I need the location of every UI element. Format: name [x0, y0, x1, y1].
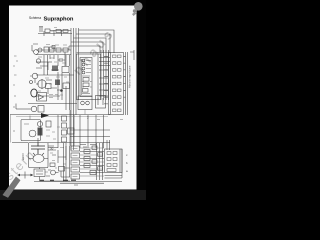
plug arrow left — [18, 172, 34, 179]
motor M — [29, 153, 48, 163]
wire long horizontal B — [10, 114, 110, 116]
watermark diagonal upper — [70, 25, 118, 78]
wire vertical bus center — [71, 28, 79, 150]
svg-text:Schéma: Schéma — [29, 16, 41, 20]
motor box — [29, 143, 49, 168]
wire long horizontal B2 — [16, 115, 108, 117]
wire top bus — [38, 31, 72, 34]
wire box top link — [77, 51, 109, 53]
wire left margin drop — [10, 115, 12, 143]
schematic page — [9, 6, 137, 190]
tube V3 — [38, 79, 46, 89]
tube V4 box — [37, 93, 47, 102]
solder dashes bottom rail — [40, 179, 76, 181]
wire top of motor box — [12, 138, 70, 150]
label a3 — [14, 95, 16, 97]
resistor R6 — [63, 48, 68, 52]
bottom block left column — [71, 146, 80, 179]
wire mid-left connections — [16, 104, 58, 148]
wire h5 — [36, 95, 60, 97]
label a1 — [13, 56, 18, 66]
wire nested bracket 5 — [69, 46, 100, 53]
terminal row ticks — [104, 56, 126, 104]
tube V2 — [36, 59, 40, 63]
wire verticals lower right — [80, 115, 110, 150]
wire bottom sub-rows — [80, 148, 104, 176]
capacitor C2 — [52, 66, 58, 72]
wire verticals lower — [58, 110, 74, 148]
node 30 label — [50, 147, 54, 151]
solder blob — [60, 89, 63, 92]
resistor R2 — [56, 30, 61, 33]
meter box M1 — [21, 116, 41, 141]
wire verticals center — [58, 72, 70, 110]
relay box K2 — [96, 96, 106, 109]
label Netz vertical — [21, 153, 25, 160]
output box TB2 — [105, 149, 123, 173]
wire h4 — [36, 74, 74, 76]
jack J2 — [30, 73, 38, 83]
svg-text:Supraphon: Supraphon — [44, 17, 74, 23]
svg-text:30: 30 — [50, 147, 54, 151]
tiny labels motor area — [45, 127, 66, 172]
resistor R14 — [83, 89, 89, 93]
watermark blob corner top-right — [132, 2, 143, 16]
wire nested bracket 3 — [74, 38, 107, 53]
watermark diagonal lower — [2, 146, 39, 183]
wire right rails — [126, 52, 128, 115]
capacitor C3 — [55, 80, 60, 86]
wire below motor — [40, 168, 71, 182]
wire bottom horizontals — [80, 152, 104, 173]
node 2 label — [87, 116, 89, 120]
value labels center-left — [38, 28, 69, 98]
capacitor C4 — [46, 121, 51, 127]
wire h3 — [36, 61, 52, 63]
resistor R8 — [63, 83, 70, 89]
capacitor C1 — [39, 27, 43, 33]
wire bottom rail — [34, 182, 122, 186]
switch box S1 outer — [77, 54, 101, 100]
title Supraphon — [44, 17, 74, 23]
pickup P1 — [16, 106, 44, 113]
resistor R7 — [62, 67, 69, 73]
aux contact cluster — [46, 145, 96, 178]
pin labels a b c — [126, 153, 128, 173]
wire cross ticks — [99, 58, 110, 97]
resistor R5 — [56, 48, 61, 52]
wire bottom verticals — [97, 143, 103, 180]
wire nested bracket 4 — [71, 42, 103, 53]
wire nested bracket 2 — [76, 34, 110, 53]
motor cap C6 — [31, 143, 45, 155]
selector arrow — [41, 113, 49, 118]
fuse box F1 — [34, 169, 45, 177]
wire long horizontal A — [28, 103, 77, 105]
extra ticks center-left — [36, 55, 70, 94]
resistor R3 — [63, 30, 68, 33]
wire horizontals lower — [70, 130, 110, 143]
bottom dark strip — [0, 190, 146, 200]
bottom block mid resistors — [84, 146, 103, 175]
capacitor C5 — [58, 58, 65, 62]
switch contacts — [82, 59, 85, 74]
watermark blob corner bottom-left — [3, 177, 21, 198]
svg-text:Abschirmgehäuse: Abschirmgehäuse — [128, 65, 132, 88]
title Schéma — [29, 16, 41, 20]
wire risers motor area — [66, 146, 70, 177]
tube V1 — [38, 48, 42, 52]
resistor R13 — [83, 83, 89, 87]
bottom block labels — [73, 149, 96, 177]
wire v drops — [44, 52, 65, 75]
wire h2 — [36, 54, 71, 56]
ladder boxes — [62, 116, 67, 142]
jack J3 — [31, 89, 37, 97]
wire TB2 bottom — [105, 149, 123, 178]
choke L1 — [37, 121, 42, 135]
label tick — [13, 106, 15, 108]
wire box right bus — [101, 50, 109, 100]
resistor R1 — [45, 29, 50, 33]
trimmer T1 — [52, 46, 55, 49]
wire right drop — [69, 46, 134, 60]
terminal rows — [113, 55, 122, 112]
label a2 — [13, 75, 17, 85]
tiny labels under line B — [85, 110, 123, 120]
label tick — [13, 130, 15, 132]
switch box S1 inner — [80, 58, 92, 97]
label Abschirmung vertical — [128, 65, 132, 88]
resistor R15 — [68, 128, 75, 134]
switch bank interior detail — [82, 59, 92, 95]
resistor R12 — [83, 78, 89, 82]
resistor row middle — [44, 47, 49, 52]
wire left pair bottom block — [64, 143, 67, 182]
jack J1 — [32, 44, 38, 54]
node ticks top — [44, 30, 62, 36]
wire h1 — [36, 49, 71, 51]
resistor R9 — [46, 84, 52, 89]
background black mat — [0, 0, 146, 200]
resistor R4 — [50, 47, 55, 52]
TB2 rows — [107, 152, 117, 172]
wire nested bracket 1 — [79, 30, 115, 53]
relay box K1 — [78, 96, 92, 110]
terminal box TB1 — [109, 53, 124, 115]
